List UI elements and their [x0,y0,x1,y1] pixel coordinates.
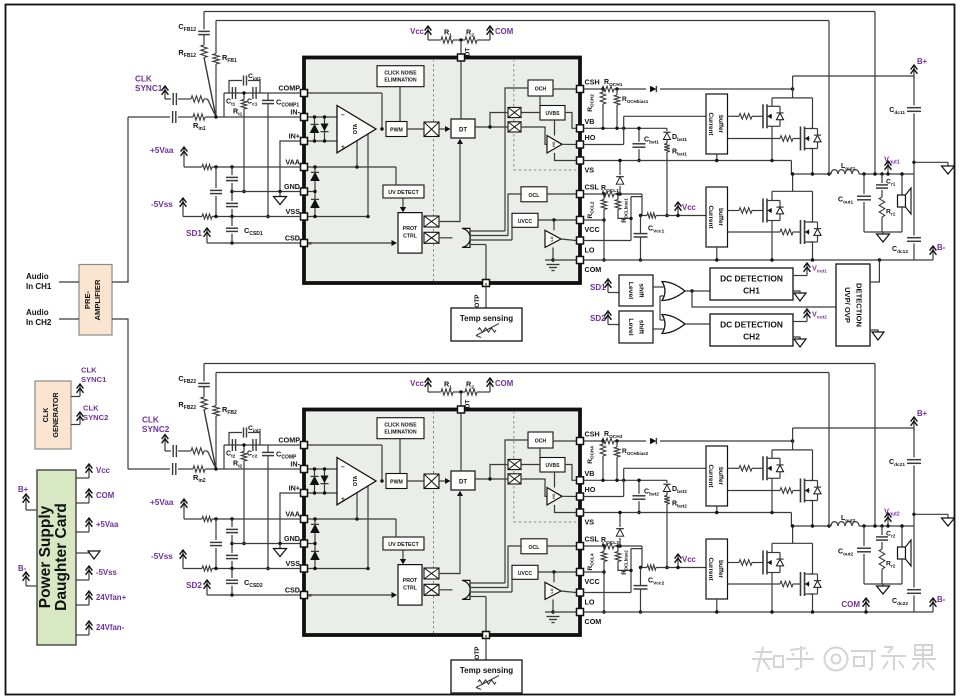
DT to high side wires [475,126,508,128]
svg-text:COMP: COMP [278,436,300,445]
bottom OTP pin [483,280,490,287]
VAA riser into UV detect [395,167,397,185]
svg-text:HO: HO [585,485,596,494]
U1 right pins [577,86,584,93]
or gate 2 [662,315,685,334]
CSL rail + resistor ROCL1 [584,193,603,195]
capacitor CCSD2 [231,569,233,579]
svg-text:UVBS: UVBS [546,111,561,117]
kill line to DT [439,142,460,222]
current buffer low [706,187,728,247]
VAA riser into UV detect [395,519,397,537]
PROT CTRL box [398,565,422,606]
dc det ch1 sense [793,275,807,277]
level-shift x-box after PWM [424,474,439,489]
MOSFET high A [762,104,764,128]
svg-text:CTRL: CTRL [403,586,418,592]
svg-text:COM: COM [585,617,602,626]
U2 left pins [301,442,308,449]
svg-text:CSD: CSD [285,586,300,595]
IN- internal rail [308,468,338,470]
zobel Rr1 [879,197,885,217]
clock generator box [35,381,71,449]
svg-text:CLICK NOISE: CLICK NOISE [384,423,417,429]
svg-text:PROT: PROT [403,226,418,232]
wire CNE to PWM [399,87,401,121]
UVBS box [540,106,565,121]
svg-text:VS: VS [585,518,595,527]
IN+ internal rail [308,492,338,494]
bootstrap resistor Rbst1 [666,140,668,144]
capacitor CFB22 [203,364,205,382]
svg-text:PWM: PWM [390,128,403,134]
svg-text:B-: B- [937,243,946,252]
dc det ch2 ground [793,337,800,339]
bootstrap resistor Rbst2 [666,492,668,496]
AND gate (points left) [462,228,470,247]
svg-text:buffer: buffer [717,208,724,227]
level-shift x-box after PWM [424,122,439,137]
svg-text:SD1: SD1 [590,283,606,292]
UVP ground [870,330,878,332]
IN+ internal rail [308,140,338,142]
svg-text:Level: Level [627,282,634,299]
svg-text:-5Vss: -5Vss [96,568,117,577]
high side x-boxes [508,459,521,469]
UVBS to VB link [565,465,576,481]
dc detection ch1 box [710,268,793,300]
svg-text:CSL: CSL [585,535,600,544]
svg-text:OTP: OTP [474,294,481,308]
VB rail [584,127,668,129]
preamp out ch2 wire [112,319,128,469]
svg-text:−: − [341,464,345,471]
DT pin riser [460,58,462,120]
UVCC box [512,213,538,227]
IN- internal rail [308,116,338,118]
svg-text:DC DETECTION: DC DETECTION [720,274,783,284]
svg-text:CLK: CLK [135,75,152,84]
UVBS box [540,458,565,473]
resistor ROCLbias2 [615,552,621,562]
clk coupling network [165,98,171,100]
decoupling caps VAA-VSS [214,165,217,168]
click noise elimination box [377,418,424,439]
temp sensing box ch1 [485,283,487,308]
OCH box [528,80,553,96]
bootstrap diode Dbst1 [666,128,668,131]
GND internal rail [308,191,316,193]
inductor Lout1 [827,172,830,175]
MOSFET low C [762,551,764,575]
svg-text:CTRL: CTRL [403,234,418,240]
VSS internal rail [308,568,369,570]
svg-text:OCL: OCL [529,545,541,551]
resistor Rin1 [193,114,205,120]
svg-text:LO: LO [585,598,595,607]
or1 to dc det wire [685,290,710,292]
AND gate (points left) [462,580,470,599]
svg-text:Temp sensing: Temp sensing [460,666,513,675]
VS rail [584,160,792,162]
OCH to logic riser [505,88,528,231]
clk sync arrow [164,87,166,99]
capacitor Cdc22 [913,526,915,588]
svg-text:VCC: VCC [585,577,600,586]
feedback wire 1 ch2 [204,363,875,365]
arrow into DT [439,128,449,130]
VCC rail to LO driver [538,571,576,573]
psu stubs right [76,477,89,479]
svg-text:PWM: PWM [390,480,403,486]
svg-text:×: × [308,593,312,600]
summing node [214,115,217,118]
GND internal rail [308,543,316,545]
level shift box 2 [619,311,653,343]
svg-text:COM: COM [585,265,602,274]
current buffer high [706,94,728,154]
audio in ch2 wire [59,318,79,320]
svg-text:HO: HO [552,141,556,147]
svg-text:UVCC: UVCC [518,571,533,577]
resistor Rin2 [193,466,205,472]
HO driver triangle [547,136,562,154]
svg-text:ELIMINATION: ELIMINATION [384,430,417,436]
input clamp diodes [314,469,316,493]
UV DETECT box [383,537,424,550]
zobel Cr2 [880,524,883,527]
svg-text:CSH: CSH [585,430,600,439]
svg-text:SYNC2: SYNC2 [83,413,108,422]
gate resistors high [728,467,740,469]
svg-text:CLICK NOISE: CLICK NOISE [384,71,417,77]
VAA internal rail [308,166,397,168]
dashed partition lines [433,411,435,633]
svg-text:OCL: OCL [529,193,541,199]
current buffer low [706,539,728,599]
PWM box [386,474,407,489]
OCH to UVBS [539,448,541,458]
svg-text:GND: GND [284,182,300,191]
svg-text:PROT: PROT [403,578,418,584]
svg-text:SD2: SD2 [186,581,202,590]
VCC rail to LO driver [538,219,576,221]
mid ground branch [912,513,915,516]
svg-text:CSD: CSD [285,234,300,243]
driver ground [552,247,554,260]
svg-text:+5Vaa: +5Vaa [96,520,119,529]
svg-text:-5Vss: -5Vss [151,552,173,561]
PWM box [386,122,407,137]
svg-text:OTA: OTA [353,475,359,486]
VB rail [584,479,668,481]
feedback tap risers [828,21,830,175]
svg-text:CLK: CLK [83,404,99,413]
OCL box [521,539,547,554]
UV DETECT box [383,185,424,198]
UVBS to VB link [565,113,576,129]
dc detection ch2 box [710,314,793,346]
clk sync arrow [164,436,166,452]
svg-text:AMPLIFIER: AMPLIFIER [93,279,102,320]
prot x-boxes [424,568,439,579]
B- supply arrow [914,259,933,261]
OTP riser [485,245,487,284]
level shift box 1 [619,275,653,306]
capacitor Cdc21 [913,428,915,458]
gate input bundle [470,230,505,232]
dc det ch2 sense [793,321,807,323]
MOSFET low D [800,572,802,596]
driver ground [552,599,554,612]
svg-text:CSH: CSH [585,78,600,87]
VCC rail [584,571,605,573]
CSH rail + resistor ROCH1 [584,88,603,90]
svg-text:B+: B+ [917,409,928,418]
svg-text:DC DETECTION: DC DETECTION [720,320,783,330]
svg-text:Vcc: Vcc [410,379,425,388]
resistor ROCHbias1 [616,89,618,95]
resistor ROCH2 vertical [602,89,604,92]
DT box [451,119,475,138]
COM power rail [584,611,915,613]
VSS internal rail [308,216,369,218]
svg-text:+: + [341,144,345,151]
dashed partition lines [433,59,435,281]
diagonal feedback wire [204,58,216,118]
COMP internal rail [308,444,383,446]
supply clamp zeners [314,167,316,192]
svg-text:HO: HO [585,133,596,142]
gate resistors low [728,562,740,564]
Vout2 arrow [887,514,889,526]
CSD internal rail [308,242,396,244]
bottom OTP pin [483,632,490,639]
capacitor CCOMP1 [267,93,269,100]
resistor RFB2 [213,406,219,416]
svg-text:+5Vaa: +5Vaa [150,498,174,507]
svg-text:VAA: VAA [285,510,300,519]
svg-text:CH2: CH2 [743,332,760,342]
LO driver triangle [545,582,561,599]
preamplifier box [79,265,112,336]
arrow UV detect to PROT [402,550,404,562]
svg-text:COM: COM [841,600,860,609]
OCH box [528,432,553,448]
svg-text:shift: shift [638,283,645,298]
capacitor CCOMP2 [267,445,269,452]
high drain rail [772,449,813,451]
svg-text:24Vfan-: 24Vfan- [96,623,125,632]
svg-text:UVP/ OVP: UVP/ OVP [843,287,852,323]
zobel ground rail [864,583,902,585]
svg-text:SD1: SD1 [186,229,202,238]
resistor ROCHbias2 [616,441,618,447]
svg-text:VAA: VAA [285,158,300,167]
high drain rail [772,97,813,99]
capacitor Cdc12 [913,174,915,236]
svg-text:B-: B- [18,564,27,573]
svg-text:OTP: OTP [474,646,481,660]
resistor ROCH4 vertical [602,441,604,444]
kill line to DT [439,494,460,574]
capacitor Cout2 [862,524,865,527]
COM tap [489,27,491,40]
svg-text:COM: COM [96,491,114,500]
resistor ROCL4 vertical [601,552,607,562]
or2 to dc det wire [685,323,710,325]
preamp out ch1 wire [112,117,128,282]
divider to DT pin [459,38,462,41]
IC U1 body [304,58,580,284]
svg-text:Level: Level [627,318,634,335]
high side x-boxes [508,107,521,117]
capacitor CFB12 [203,12,205,30]
LO driver triangle [545,230,561,247]
IC U2 body [304,410,580,636]
COMP compensation network [224,92,301,94]
svg-text:UVCC: UVCC [518,219,533,225]
gate resistors high [728,115,740,117]
top DT pin [458,406,465,413]
gate output to prot x-box [439,237,452,239]
svg-text:In CH2: In CH2 [26,318,52,327]
Vcc feed line to low side buffer [642,197,647,216]
resistor R2 [465,389,477,395]
resistor RFB1 [213,54,219,64]
svg-text:GND: GND [284,534,300,543]
svg-text:SYNC1: SYNC1 [81,375,107,384]
svg-text:IN+: IN+ [289,132,300,141]
svg-text:24Vfan+: 24Vfan+ [96,593,127,602]
svg-text:SYNC2: SYNC2 [142,425,170,434]
OTP riser [485,597,487,636]
resistor RFB22 [203,387,205,397]
audio input rail ch2 [128,468,170,470]
svg-text:COMP: COMP [278,84,300,93]
clk sync1 stub [71,396,80,398]
Vcc arrow [677,555,679,568]
Vcc arrow [677,203,679,216]
VS rail [584,512,792,514]
UVP/OVP detection box [836,264,870,346]
HO driver triangle [547,488,562,506]
decoupling caps VAA-VSS [214,517,217,520]
resistor ROCLbias1 [615,200,621,210]
PROT CTRL box [398,213,422,254]
HO drive path riser [584,496,624,498]
DT to high side wires [475,478,508,480]
OCH to UVBS [539,96,541,106]
capacitor CVcc1 [639,214,642,217]
svg-text:OCH: OCH [535,87,547,93]
level shift to or wires [653,286,665,288]
COMP internal rail [308,92,383,94]
CSL-VS diode [619,538,621,546]
svg-text:Vcc: Vcc [96,466,111,475]
bootstrap cap Cbst1 [638,128,640,142]
B+ feed line [793,427,914,429]
psu ground stub [76,552,91,554]
MOSFET high B [800,479,802,503]
svg-text:LO: LO [550,588,554,593]
svg-text:COM: COM [495,379,513,388]
low drain rail [772,542,813,544]
MOSFET low D [800,220,802,244]
resistor Rt1 [243,93,245,100]
svg-text:Power Supply: Power Supply [37,505,54,608]
GND spur [232,543,301,545]
zobel Cr1 [880,172,883,175]
watermark zhihu [755,651,772,653]
OCH to logic riser [505,440,528,583]
speaker [901,526,903,547]
svg-text:IN-: IN- [290,460,300,469]
resistor R1 [428,391,441,393]
Vcc feed line to low side buffer [642,549,647,568]
svg-text:OTA: OTA [353,123,359,134]
MOSFET high A [762,456,764,480]
input clamp diodes [314,117,316,141]
blocking diode [650,438,656,444]
resistor Rt2 [243,445,245,452]
svg-text:HO: HO [552,493,556,499]
clk coupling network [165,450,171,452]
COM tap [489,379,491,392]
svg-text:GENERATOR: GENERATOR [51,392,60,438]
OCL box [521,187,547,202]
svg-text:Audio: Audio [26,308,49,317]
svg-text:Audio: Audio [26,272,49,281]
svg-text:B+: B+ [917,57,928,66]
bootstrap cap Cbst2 [638,480,640,494]
svg-text:In CH1: In CH1 [26,282,52,291]
svg-text:UV DETECT: UV DETECT [388,542,419,548]
svg-text:CLK: CLK [142,416,159,425]
top DT pin [458,54,465,61]
resistor ROCL2 vertical [601,200,607,210]
svg-text:Daughter Card: Daughter Card [53,503,70,611]
svg-text:SD2: SD2 [590,314,606,323]
prot x-boxes [424,216,439,227]
low drain rail [772,190,813,192]
svg-text:DT: DT [459,128,467,134]
capacitor Cout1 [862,172,865,175]
inductor Lout2 [827,524,830,527]
COM power rail [584,259,915,261]
U2 right pins [577,438,584,445]
HO drive path riser [584,144,624,146]
capacitor Cdc11 [913,76,915,106]
svg-text:DT: DT [459,480,467,486]
UVCC box [512,565,538,579]
svg-text:COM: COM [495,27,513,36]
zobel Rr2 [879,549,885,569]
feedback tap risers [828,373,830,527]
fault line to UVP/OVP [692,291,836,307]
audio input rail ch1 [128,116,170,118]
VAA internal rail [308,518,397,520]
svg-text:VCC: VCC [585,225,600,234]
svg-text:Vcc: Vcc [682,203,697,212]
svg-text:PRE-: PRE- [83,290,92,309]
svg-text:DT: DT [465,48,472,57]
svg-text:Current: Current [707,112,714,136]
svg-text:LO: LO [585,246,595,255]
svg-text:Current: Current [707,205,714,229]
svg-text:VS: VS [585,166,595,175]
feedback wire 2 ch1 [216,20,829,22]
